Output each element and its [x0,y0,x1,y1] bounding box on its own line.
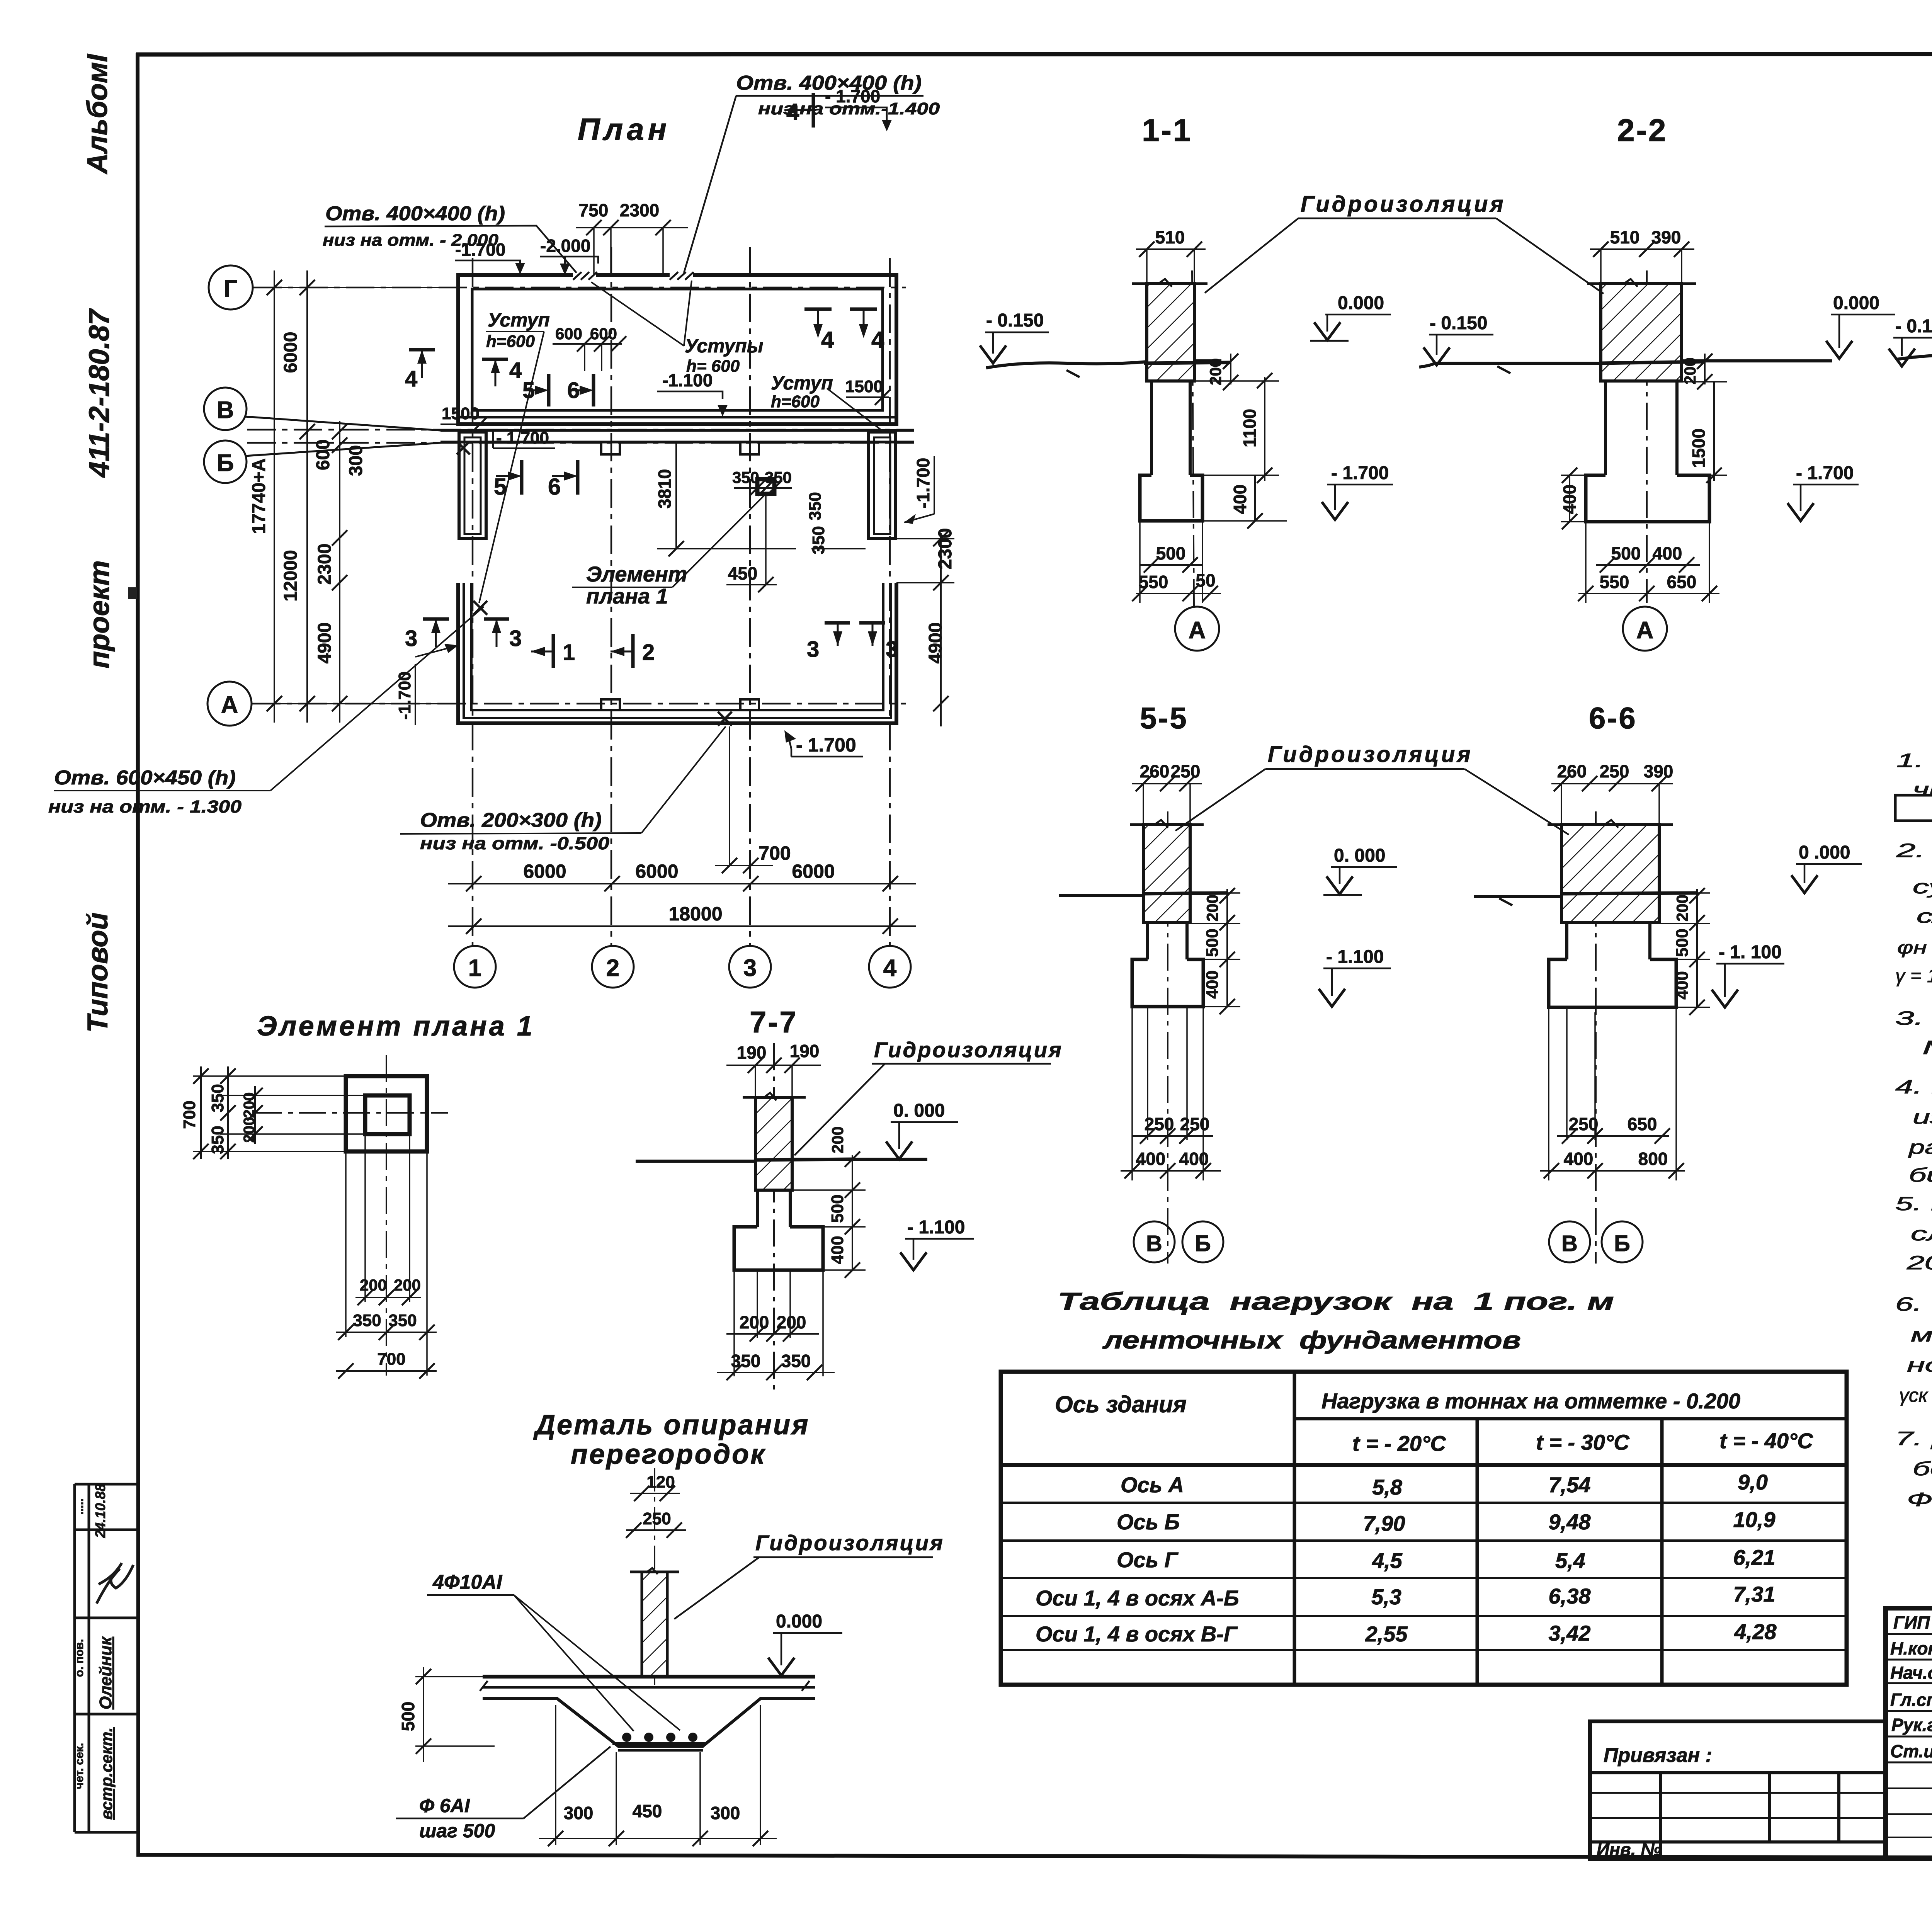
svg-text:600: 600 [313,439,333,470]
svg-text:120: 120 [646,1473,675,1492]
svg-text:Гидроизоляция: Гидроизоляция [755,1531,944,1555]
svg-text:Ст.инж.: Ст.инж. [1890,1741,1932,1761]
svg-text:600: 600 [590,325,617,343]
lower wall notch left [601,699,620,710]
stamp pencil scribbles [73,1498,86,1789]
svg-text:300: 300 [711,1803,740,1823]
svg-text:400: 400 [1203,970,1222,998]
svg-text:350: 350 [731,1351,761,1371]
svg-text:4Ф10АI: 4Ф10АI [432,1571,503,1594]
svg-text:Ось Б: Ось Б [1117,1510,1180,1534]
svg-text:10,9: 10,9 [1733,1507,1776,1532]
svg-text:3: 3 [807,637,819,662]
svg-text:- 1.700: - 1.700 [1331,463,1389,483]
dim 1500 left [440,404,488,432]
svg-text:- 1.700: - 1.700 [496,429,549,447]
svg-text:0. 000: 0. 000 [1334,845,1385,866]
leader otv right [684,96,923,273]
stem 7-7 [757,1190,790,1227]
svg-text:700: 700 [377,1350,405,1369]
dim 250 250 bottom s55 [1132,1114,1213,1144]
svg-text:600: 600 [555,325,582,343]
svg-text:4: 4 [405,366,417,391]
svg-text:ГИП: ГИП [1893,1612,1930,1633]
svg-text:из хорошо обожженного к: из хорошо обожженного кирпича М100 на це… [1913,1106,1932,1128]
svg-text:чет. сек.: чет. сек. [73,1743,86,1789]
svg-text:300: 300 [346,445,366,476]
circle A [207,682,252,726]
dim 500 rotated s77 [823,1194,866,1235]
svg-text:ленточных фундаментов: ленточных фундаментов [1102,1326,1521,1354]
svg-text:400: 400 [1673,971,1692,999]
svg-text:200: 200 [1203,895,1221,922]
svg-text:чистого пола, что соответ: чистого пола, что соответствует отметке [1913,779,1932,800]
svg-text:2-2: 2-2 [1617,113,1668,148]
stem 1-1 [1151,381,1190,475]
svg-text:18000: 18000 [668,903,722,925]
level -1.700 mid-left flag [493,429,555,448]
plan axis lines dash-dot [247,247,914,946]
element plana 1 label [572,495,764,608]
svg-text:3: 3 [509,626,522,651]
dim 200 rotated s77 [792,1126,866,1198]
svg-text:390: 390 [1651,227,1681,247]
svg-text:М200, бетон М100.: М200, бетон М100. [1922,1037,1932,1058]
level -0.150 s22 [1423,313,1493,365]
small 700 dim [729,726,730,866]
svg-text:- 1.700: - 1.700 [1796,463,1854,483]
svg-text:200: 200 [241,1117,258,1143]
dims 300 450 300 [539,1705,777,1846]
extension lines [255,287,458,288]
svg-text:перегородок: перегородок [571,1439,766,1470]
axis circle A s11 [1175,607,1219,651]
svg-text:Гидроизоляция: Гидроизоляция [1301,192,1506,217]
svg-text:Г: Г [224,276,237,302]
svg-text:t = - 20°С: t = - 20°С [1352,1431,1446,1456]
svg-text:-1.700: -1.700 [913,458,933,508]
svg-text:В: В [1146,1231,1162,1256]
svg-text:6: 6 [548,474,561,500]
svg-text:План: План [578,112,670,146]
svg-text:бетонной подготовке пола д: бетонной подготовке пола для опирания пе… [1913,1458,1932,1480]
dim 510 top [1136,227,1206,284]
dim 750 2300 top [576,200,688,275]
dim 400 rotated s22 [1560,468,1586,529]
table frame [1001,1372,1847,1685]
strip notch left [601,442,620,454]
svg-text:- 1.100: - 1.100 [907,1217,965,1238]
svg-text:6-6: 6-6 [1589,701,1637,735]
svg-text:350: 350 [732,468,759,486]
dim 3810 rotated [655,443,796,556]
signature labels [1890,1612,1932,1761]
svg-text:300: 300 [564,1803,594,1823]
dim 400 800 bottom s66 [1540,1007,1685,1180]
svg-text:0.000: 0.000 [1833,293,1879,313]
svg-text:350: 350 [388,1311,417,1330]
dim 600 600 [553,325,626,371]
svg-text:3: 3 [886,637,898,662]
svg-text:4,5: 4,5 [1372,1548,1403,1573]
bottom dims element [336,1134,437,1379]
section 4 marks upper left pair [405,350,522,391]
svg-text:250: 250 [1180,1114,1210,1134]
svg-text:4900: 4900 [925,622,946,664]
svg-text:5. Горизонтальную гидроизо: 5. Горизонтальную гидроизоляцию стен вып… [1895,1193,1932,1214]
svg-text:h=600: h=600 [771,392,820,411]
axis circles V B s66 [1549,1221,1590,1262]
dim 500 rotated s66 [1673,925,1710,967]
dim 200 rotated s55 [1187,888,1240,930]
dim 400 rotated s77 [823,1227,866,1278]
svg-text:500: 500 [828,1194,847,1223]
svg-text:17740+А: 17740+А [249,458,269,534]
svg-text:Уступ: Уступ [488,309,550,331]
svg-text:4900: 4900 [315,622,335,664]
thickening trench [483,1699,815,1746]
axis 1 [472,258,474,946]
svg-text:500: 500 [398,1702,418,1731]
dim 350 350 bottom s77 [717,1271,835,1380]
small mark left margin [128,587,137,599]
BOTTOM LEFT STAMP [75,1484,137,1832]
svg-text:Отв. 400×400 (h): Отв. 400×400 (h) [325,202,505,225]
svg-text:.....: ..... [73,1498,86,1515]
circle V [204,388,247,430]
svg-text:2300: 2300 [620,200,659,220]
dim line 6000/12000 [306,270,308,723]
svg-text:о. пов.: о. пов. [73,1639,86,1677]
genplan box [1895,795,1932,821]
rebar dots [622,1733,697,1742]
svg-text:400: 400 [1136,1149,1166,1169]
svg-text:4: 4 [509,358,522,383]
dim 500 400 bottom s22 [1596,543,1700,573]
svg-text:6000: 6000 [281,332,301,373]
svg-text:Ось А: Ось А [1121,1473,1184,1497]
level -1.700 rotated left lower [395,644,458,725]
axis circles left [204,265,440,726]
svg-text:Ф 6АI: Ф 6АI [419,1795,470,1816]
svg-text:-2.000: -2.000 [540,236,590,256]
section cut 1 mark [531,634,575,668]
inner square [365,1095,410,1134]
svg-text:следующими нормативными: следующими нормативными характеристиками… [1917,905,1932,927]
dim 260 250 390 top 6-6 [1551,761,1673,825]
section cut 6 lower [548,460,578,500]
svg-text:400: 400 [1653,543,1682,563]
svg-text:700: 700 [759,842,791,864]
level -0.150 s33 [1889,316,1932,366]
svg-text:7-7: 7-7 [750,1005,798,1039]
otv 600x450 bottom left [48,607,484,816]
centerline 2-2 [1646,270,1648,603]
svg-text:Отв. 600×450 (h): Отв. 600×450 (h) [54,767,236,789]
level -1.700 right rotated [904,456,934,524]
level -1.100 s77 [900,1217,974,1270]
svg-text:- 1.700: - 1.700 [796,734,856,756]
svg-text:1-1: 1-1 [1142,113,1192,148]
svg-text:Б: Б [1614,1231,1630,1256]
wall break mark [1157,279,1172,287]
axis 3 [749,247,751,946]
svg-text:450: 450 [728,563,758,583]
x mark left wall [473,601,487,615]
svg-text:0.000: 0.000 [1338,293,1384,313]
ground line 1-1 [986,362,1147,368]
svg-text:Б: Б [1195,1231,1211,1256]
svg-text:Олейник: Олейник [96,1636,115,1709]
axis circles V B s55 [1134,1221,1175,1262]
svg-text:2: 2 [642,640,655,665]
level -0.150 [980,310,1049,363]
svg-text:Гл.спец.: Гл.спец. [1890,1690,1932,1710]
svg-text:6000: 6000 [523,861,566,882]
axis A [252,703,906,705]
wall 6-6 hatched [1561,825,1659,922]
svg-text:1: 1 [563,640,575,665]
dim 190 190 top 7-7 [726,1041,821,1097]
centerline 5-5 [1167,811,1168,1264]
dim line total 17740 [274,270,275,723]
svg-text:5,4: 5,4 [1555,1548,1585,1573]
dim 1500 right [845,377,890,405]
svg-text:260: 260 [1140,761,1170,781]
border top [136,54,1932,54]
B axis wall strip [440,430,914,454]
otv 200x300 label [400,726,726,853]
section cut 5 upper [522,374,549,406]
svg-text:1100: 1100 [1240,409,1260,447]
ground line 7-7 [636,1159,927,1161]
LEFT MARGIN VERTICAL TEXT [81,54,115,1033]
svg-text:200: 200 [828,1126,847,1153]
svg-text:3: 3 [405,626,417,651]
section cut 3 marks lower right [807,623,898,662]
svg-text:5,8: 5,8 [1372,1475,1403,1499]
left middle wall pier [459,432,486,539]
svg-text:24.10.88: 24.10.88 [92,1484,108,1538]
svg-text:9,48: 9,48 [1549,1510,1591,1534]
svg-text:- 1.700: - 1.700 [825,86,880,106]
svg-text:200: 200 [241,1092,258,1118]
svg-text:0.000: 0.000 [776,1611,822,1632]
section cut 6 upper [567,374,594,406]
dims 350 350 rotated right of element [806,492,866,554]
level 0.000 s66 [1791,842,1862,893]
svg-text:Нач.отд.: Нач.отд. [1890,1663,1932,1683]
dim 250 [626,1509,686,1538]
svg-text:350: 350 [208,1126,227,1154]
svg-text:проект: проект [83,560,115,668]
wall 5-5 hatched [1143,825,1190,922]
svg-text:2. В качестве основания ф: 2. В качестве основания фундаментов прин… [1896,840,1932,861]
svg-text:200: 200 [777,1312,806,1332]
svg-text:190: 190 [790,1041,820,1061]
dims 350 350 at element [732,468,792,496]
dim 500 left detail [398,1667,495,1762]
svg-text:Уступ: Уступ [771,372,833,394]
svg-text:390: 390 [1644,761,1673,781]
dim 550 650 bottom s22 [1578,522,1719,603]
axis V [247,429,914,431]
svg-text:5-5: 5-5 [1140,701,1188,735]
svg-text:4,28: 4,28 [1734,1619,1777,1644]
svg-text:2,55: 2,55 [1365,1622,1408,1646]
svg-text:0 .000: 0 .000 [1799,842,1850,863]
centerline 1-1 [1192,270,1194,606]
border bottom [138,1855,1932,1859]
dim 200 rotated s66 [1650,888,1710,930]
svg-text:6000: 6000 [792,861,835,882]
element plan 1 marker square [757,479,774,494]
svg-text:растворе М50 и со стороны: растворе М50 и со стороны грунта промаза… [1908,1136,1932,1158]
svg-text:800: 800 [1638,1149,1668,1169]
svg-text:7. расход арматуры на арт: 7. расход арматуры на артирование утолще… [1895,1428,1932,1449]
centerlines element [386,1055,387,1376]
centerline 6-6 [1595,811,1597,1264]
svg-text:2300: 2300 [315,544,335,585]
ground line 5-5 [1059,894,1144,897]
svg-text:4. Кирпичные стены ниже о: 4. Кирпичные стены ниже отметки 0.000 вы… [1895,1076,1932,1098]
footing 2-2 [1586,475,1709,522]
svg-text:650: 650 [1628,1114,1657,1134]
svg-text:411-2-180.87: 411-2-180.87 [83,308,115,478]
wall 7-7 hatched [755,1097,792,1190]
svg-text:битумом за 2 раза .: битумом за 2 раза . [1909,1164,1932,1186]
svg-text:1500: 1500 [845,377,883,396]
footing 5-5 [1132,959,1203,1007]
svg-text:20 мм на отметке - 0, 030 .: 20 мм на отметке - 0, 030 . [1906,1252,1932,1274]
lower wall notch right [740,699,759,710]
dim 120 [630,1473,680,1501]
svg-text:γ = 1,8 т / м³.: γ = 1,8 т / м³. [1895,965,1932,986]
svg-text:400: 400 [828,1236,847,1264]
axis B [247,442,914,444]
svg-text:3,42: 3,42 [1549,1621,1591,1645]
svg-text:3. фундаменты выполнить из: 3. фундаменты выполнить из бутобетона : … [1895,1007,1932,1029]
level -1.700 top right flag [825,86,892,131]
svg-text:низ на отм. - 1.300: низ на отм. - 1.300 [48,797,241,816]
strip notch right [740,442,759,454]
svg-text:550: 550 [1600,572,1629,592]
svg-text:- 0.150: - 0.150 [986,310,1044,331]
level 0.000 [1310,293,1391,341]
footing 1-1 [1140,475,1202,521]
dim row 18000 [448,925,916,927]
svg-text:450: 450 [633,1801,662,1821]
svg-text:350: 350 [809,526,828,554]
band bottom double line [458,416,896,418]
left dims element [193,1066,365,1159]
svg-text:400: 400 [1179,1149,1209,1169]
ustup label right [771,372,885,433]
circle B [204,440,247,483]
section 4 marks top right going down [804,309,884,353]
svg-text:500: 500 [1673,929,1692,957]
svg-text:- 1. 100: - 1. 100 [1719,942,1782,963]
ground line 3-3 [1896,353,1932,359]
dim row 6000s [448,883,916,884]
section 4 mark top [784,93,813,128]
svg-text:Таблица нагрузок на 1 пог.: Таблица нагрузок на 1 пог. м [1058,1287,1614,1315]
svg-text:Ось здания: Ось здания [1055,1391,1187,1417]
svg-text:750: 750 [579,200,609,220]
level 0.000 s77 [886,1100,958,1159]
level -2.000 top flag [540,236,598,275]
rebar bar [612,1742,706,1745]
label F6AI shag 500 [396,1747,611,1842]
dim 250 650 bottom s66 [1557,1114,1670,1144]
floor slab [480,1677,815,1691]
axis circle A s22 [1623,607,1667,651]
opening gap left in top edge [573,271,597,280]
svg-text:500: 500 [1203,929,1222,957]
svg-text:5,3: 5,3 [1371,1585,1401,1609]
svg-text:А: А [1189,617,1206,644]
svg-text:400: 400 [1230,485,1250,514]
svg-text:Нагрузка в тоннах на отметке -: Нагрузка в тоннах на отметке - 0.200 [1321,1389,1740,1413]
svg-text:400: 400 [1564,1149,1594,1169]
dim 1500 rotated s22 [1682,382,1727,483]
footing 7-7 [734,1227,823,1270]
ground line 2-2 [1419,363,1601,367]
wall 1-1 hatched [1147,284,1194,381]
outer square [346,1076,427,1151]
PLAN DIMENSIONS BOTTOM [448,726,916,934]
svg-text:Гидроизоляция: Гидроизоляция [874,1037,1063,1062]
svg-text:250: 250 [1145,1114,1174,1134]
svg-text:Оси 1, 4 в осях А-Б: Оси 1, 4 в осях А-Б [1036,1586,1239,1610]
svg-text:200: 200 [394,1276,421,1294]
svg-text:6,21: 6,21 [1733,1545,1776,1570]
svg-text:250: 250 [1569,1114,1599,1134]
footing 6-6 [1549,959,1676,1007]
dim 200 right rotated [1206,354,1238,390]
svg-text:Ось Г: Ось Г [1117,1548,1179,1572]
svg-text:1. За отметку 0.000 принята: 1. За отметку 0.000 принята отметка уров… [1896,750,1932,771]
stamp signature [97,1563,133,1604]
svg-text:7,31: 7,31 [1733,1582,1776,1606]
svg-text:-1.100: -1.100 [662,370,713,390]
level -1.700 bottom right flag [784,730,863,757]
svg-text:1500: 1500 [1689,429,1709,468]
signature rows [1886,1633,1932,1635]
svg-text:6000: 6000 [635,861,678,882]
svg-text:местным талым грунтом без: местным талым грунтом без включений стро… [1911,1324,1932,1346]
svg-text:А: А [221,692,238,718]
svg-text:Отв. 200×300 (h): Отв. 200×300 (h) [420,809,602,832]
dim 400 rotated s66 [1673,959,1710,1015]
svg-text:3810: 3810 [655,469,675,509]
dim 500 rotated s55 [1203,925,1240,967]
circle G [209,265,253,310]
svg-text:t = - 30°С: t = - 30°С [1536,1430,1630,1454]
svg-text:низ на отм. -0.500: низ на отм. -0.500 [420,833,609,853]
svg-text:260: 260 [1557,761,1587,781]
svg-text:Инв. №: Инв. № [1597,1839,1661,1859]
axis 4 [889,258,891,946]
dim 260 250 top 5-5 [1132,761,1202,825]
stamp grid [75,1483,137,1486]
svg-text:А: А [1636,617,1654,644]
axis G [253,287,906,289]
level -1.700 s22 [1787,463,1859,521]
PRIVYAZAN TABLE [1590,1721,1886,1859]
svg-text:350: 350 [353,1311,381,1330]
PLAN TOP ANNOTATIONS [323,202,505,250]
